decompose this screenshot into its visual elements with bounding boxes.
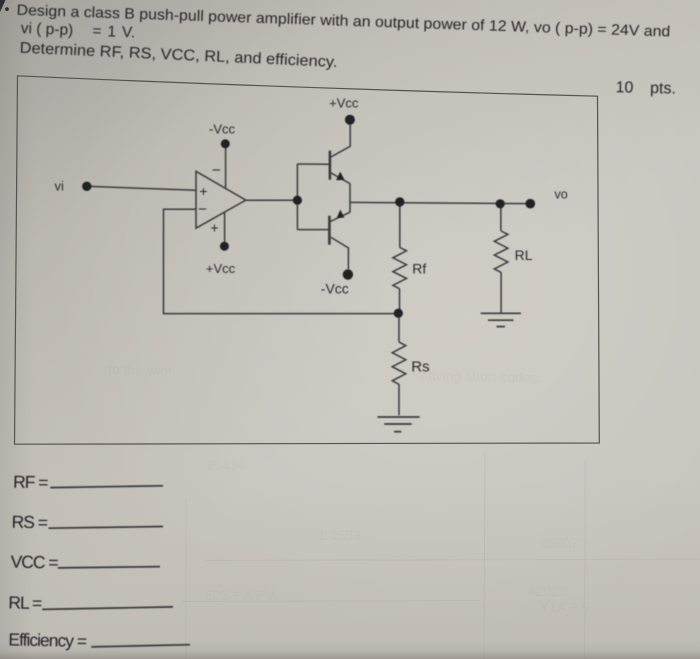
svg-text:1 0559: 1 0559 [318, 527, 361, 543]
svg-text:+: + [199, 183, 207, 199]
svg-text:RL: RL [515, 247, 533, 263]
svg-text:Rf: Rf [412, 261, 426, 277]
svg-text:having short codes.: having short codes. [420, 367, 542, 386]
svg-text:+Vcc: +Vcc [206, 261, 236, 276]
svg-text:42029: 42029 [528, 583, 567, 599]
svg-text:−: − [212, 162, 221, 179]
svg-text:RL =: RL = [8, 592, 42, 613]
svg-text:+Vcc: +Vcc [329, 96, 359, 111]
svg-text:pts.: pts. [650, 80, 676, 98]
svg-text:RS =: RS = [11, 512, 48, 533]
svg-text:Y1A + 5: Y1A + 5 [540, 599, 590, 615]
svg-text:Rs: Rs [411, 359, 429, 376]
svg-text:605 + A PV: 605 + A PV [205, 587, 275, 603]
svg-text:10: 10 [615, 79, 633, 96]
svg-text:-Vcc: -Vcc [209, 122, 236, 137]
svg-text:65607: 65607 [540, 535, 579, 551]
svg-text:vo: vo [555, 188, 568, 202]
svg-text:VCC =: VCC = [10, 552, 58, 573]
svg-text:to the wint: to the wint [108, 361, 172, 378]
svg-text:vi: vi [55, 179, 65, 194]
svg-text:25434: 25434 [206, 457, 245, 473]
svg-text:+: + [210, 220, 218, 236]
svg-text:−: − [198, 201, 207, 218]
svg-text:RF =: RF = [13, 472, 49, 493]
svg-text:-Vcc: -Vcc [321, 281, 349, 297]
svg-text:Efficiency =: Efficiency = [8, 629, 87, 651]
